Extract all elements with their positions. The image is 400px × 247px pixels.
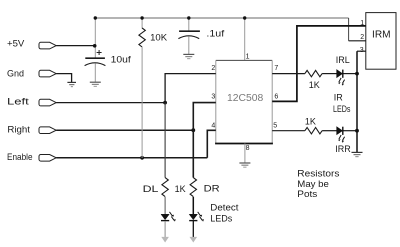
svg-text:1K: 1K [309, 80, 320, 90]
svg-text:Detect: Detect [210, 203, 239, 213]
svg-text:10K: 10K [150, 32, 167, 42]
svg-text:+5V: +5V [7, 39, 24, 49]
svg-text:7: 7 [274, 65, 278, 72]
svg-text:Enable: Enable [7, 152, 33, 162]
svg-text:3: 3 [360, 47, 364, 54]
svg-text:DL: DL [143, 184, 159, 194]
svg-text:IRM: IRM [372, 29, 391, 40]
svg-text:5: 5 [273, 122, 277, 129]
svg-text:1: 1 [246, 53, 250, 60]
svg-text:1K: 1K [175, 184, 186, 194]
svg-text:IRR: IRR [335, 144, 351, 154]
svg-text:2: 2 [360, 34, 364, 41]
svg-text:6: 6 [274, 94, 278, 101]
svg-text:IRL: IRL [336, 55, 350, 65]
svg-text:8: 8 [246, 145, 250, 152]
svg-text:LEDs: LEDs [333, 104, 351, 114]
svg-text:4: 4 [211, 123, 215, 130]
svg-text:2: 2 [211, 65, 215, 72]
svg-text:Right: Right [7, 125, 30, 135]
svg-text:Pots: Pots [297, 189, 318, 199]
svg-text:3: 3 [211, 94, 215, 101]
svg-text:1: 1 [360, 20, 364, 27]
svg-text:Left: Left [7, 97, 30, 107]
svg-text:IR: IR [334, 93, 344, 103]
svg-text:12C508: 12C508 [227, 93, 264, 104]
svg-text:1K: 1K [305, 116, 316, 126]
svg-text:DR: DR [204, 184, 221, 194]
svg-text:May be: May be [297, 179, 329, 189]
svg-text:Resistors: Resistors [297, 169, 340, 179]
svg-text:10uf: 10uf [111, 55, 132, 65]
svg-text:LEDs: LEDs [210, 214, 233, 224]
svg-text:Gnd: Gnd [7, 69, 24, 79]
svg-text:.1uf: .1uf [206, 28, 224, 38]
